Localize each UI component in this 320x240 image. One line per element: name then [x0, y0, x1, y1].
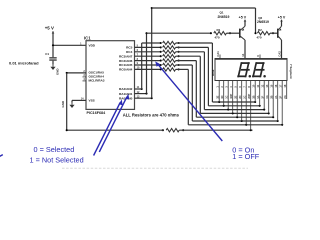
- display top pin 9: [259, 55, 261, 59]
- stub pin 4 MCLR/RA3 unused: [83, 80, 87, 82]
- capacitor C1: [49, 57, 56, 58]
- power +5V main: [52, 31, 55, 33]
- ground at VSS: [71, 103, 73, 105]
- resistor bank R seg4 470: [160, 55, 162, 57]
- svg-text:R2: R2: [258, 28, 262, 32]
- wire RA1 pin12 to R1 feed: [135, 93, 147, 95]
- display bottom pin 16: [277, 81, 279, 122]
- node seg6 digit2 end: [277, 120, 279, 122]
- display bottom pin 8: [250, 81, 252, 131]
- node seg2 digit1 tap: [223, 105, 225, 107]
- svg-text:OSC1/RA5: OSC1/RA5: [89, 71, 105, 75]
- svg-text:PIC16F684: PIC16F684: [87, 111, 107, 115]
- wire segment 4 rail: [200, 112, 268, 114]
- svg-text:RC4: RC4: [126, 50, 132, 54]
- wire segment 2 drop: [207, 47, 209, 105]
- svg-text:CA1: CA1: [216, 51, 220, 57]
- wire Q1 collector to display CA1: [244, 40, 246, 59]
- svg-text:Q2: Q2: [258, 16, 262, 20]
- svg-text:14: 14: [241, 53, 245, 57]
- node RA1 corner: [145, 93, 147, 95]
- power +5V at Q2 emitter: [281, 21, 283, 26]
- svg-text:RA2/AN2: RA2/AN2: [119, 87, 133, 91]
- wire segment 5 drop: [195, 61, 197, 118]
- display top pin CA1: [219, 55, 221, 59]
- display digit 1 showing 8.: [241, 62, 250, 64]
- display digit 2 showing 8.: [256, 62, 265, 64]
- display bottom pin 4: [232, 81, 234, 114]
- resistor bank R seg2 470: [160, 46, 162, 48]
- op IC1 PIC16F684 microcontroller: [86, 41, 135, 110]
- svg-text:470: 470: [257, 35, 262, 39]
- display bottom pin 17: [281, 81, 283, 125]
- resistor bank R seg5 470: [160, 60, 162, 62]
- node seg7 digit1 tap: [245, 124, 247, 126]
- wire segment row 7 from IC: [135, 68, 161, 70]
- svg-text:RC2/AN6: RC2/AN6: [119, 59, 133, 63]
- wire dp rail to display: [179, 129, 252, 131]
- svg-text:R1: R1: [217, 28, 221, 32]
- svg-text:RC5: RC5: [126, 46, 132, 50]
- display bottom pin 7: [245, 81, 247, 125]
- node seg1 digit1 tap: [218, 101, 220, 103]
- ground below C1: [52, 65, 54, 67]
- resistor R1 470: [210, 32, 212, 34]
- stub pin 3 OSC2/RA4 unused: [83, 76, 87, 78]
- svg-text:MCLR/RA3: MCLR/RA3: [89, 79, 105, 83]
- wire Q2 collector to display CA2: [281, 40, 283, 59]
- wire R2 to Q2 base: [270, 32, 278, 34]
- resistor R2 470: [254, 32, 256, 34]
- annotation arrow to RA0 pin: [94, 103, 121, 156]
- svg-text:2N6519: 2N6519: [218, 15, 230, 19]
- display bottom pin 5: [236, 81, 238, 118]
- wire segment 6 rail: [192, 120, 277, 122]
- wire segment 7 drop: [187, 69, 189, 124]
- svg-text:IC1: IC1: [84, 36, 91, 41]
- node seg6 digit1 tap: [241, 120, 243, 122]
- svg-text:1 = OFF: 1 = OFF: [232, 152, 260, 161]
- svg-text:470: 470: [215, 35, 220, 39]
- svg-text:VDD: VDD: [89, 44, 96, 48]
- node dp rail corner: [66, 129, 68, 131]
- svg-text:0 = Selected: 0 = Selected: [34, 145, 75, 154]
- svg-text:RC1/AN5: RC1/AN5: [119, 63, 133, 67]
- annotation fragment left edge: [0, 155, 3, 157]
- resistor R(dp) 470: [162, 129, 164, 131]
- node RA2 corner: [141, 88, 143, 90]
- resistor bank R seg7 470: [160, 68, 162, 70]
- svg-text:DIS1: DIS1: [211, 69, 215, 76]
- wire segment 3 drop: [203, 52, 205, 110]
- display bottom pin 1: [218, 81, 220, 103]
- node seg5 digit1 tap: [236, 116, 238, 118]
- wire segment 3 rail: [204, 109, 264, 111]
- wire segment 5 rail: [196, 116, 273, 118]
- svg-text:2N6519: 2N6519: [257, 20, 269, 24]
- power +5V at Q1 emitter: [244, 21, 246, 26]
- wire segment row 3 from IC: [135, 51, 161, 53]
- display bottom pin 2: [223, 81, 225, 106]
- wire RA2 pin11 up to segment row 1: [135, 88, 142, 90]
- node seg1 digit2 end: [254, 101, 256, 103]
- node seg2 digit2 end: [259, 105, 261, 107]
- svg-text:7 Segment: 7 Segment: [289, 64, 293, 79]
- wire segment row 6 from IC: [135, 64, 161, 66]
- wire segment 2 rail: [208, 105, 259, 107]
- node seg7 digit2 end: [281, 124, 283, 126]
- node dp corner: [66, 72, 68, 74]
- svg-text:OSC2/RA4: OSC2/RA4: [89, 75, 105, 79]
- svg-text:+5 V: +5 V: [239, 15, 247, 19]
- wire segment row 5 from IC: [135, 60, 161, 62]
- wire segment 4 drop: [199, 56, 201, 113]
- display bottom pin 12: [263, 81, 265, 110]
- resistor bank R seg1 470: [160, 42, 162, 44]
- wire down to R2: [255, 8, 257, 33]
- wire C1 to ground: [52, 61, 54, 65]
- svg-text:+5 V: +5 V: [278, 15, 286, 19]
- wire R1 feed horizontal: [147, 32, 211, 34]
- resistor bank R seg3 470: [160, 51, 162, 53]
- svg-text:VSS: VSS: [89, 99, 95, 103]
- wire dp vertical down: [66, 73, 68, 130]
- node RA0 corner: [151, 97, 153, 99]
- node seg4 digit2 end: [268, 112, 270, 114]
- display DIS1 dual 7-segment: [215, 59, 287, 81]
- node dp at digit pin: [250, 129, 252, 131]
- svg-text:Q1: Q1: [220, 11, 224, 15]
- svg-text:RA1/AN1: RA1/AN1: [119, 92, 133, 96]
- wire segment row 2 from IC: [135, 46, 161, 48]
- wire segment 1 rail: [212, 101, 255, 103]
- svg-text:RC0/AN4: RC0/AN4: [119, 68, 133, 72]
- display bottom pin 11: [259, 81, 261, 106]
- node R1 feed corner: [145, 32, 147, 34]
- display bottom pin 18: [286, 81, 288, 100]
- svg-text:C1: C1: [45, 52, 49, 56]
- wire segment 6 drop: [191, 65, 193, 121]
- wire dp bottom rail: [67, 129, 161, 131]
- display bottom pin 10: [254, 81, 256, 103]
- transistor Q1 2N6519 PNP: [239, 29, 241, 38]
- wire RA5 pin2 (dp segment) left and down: [67, 72, 86, 74]
- display bottom pin 13: [268, 81, 270, 114]
- node top rail corner: [151, 7, 153, 9]
- wire segment 7 rail: [188, 124, 282, 126]
- node seg4 digit1 tap: [232, 112, 234, 114]
- display bottom pin 3: [227, 81, 229, 110]
- wire +5V vertical: [52, 31, 54, 57]
- annotation arrow to RA1 pin: [99, 97, 127, 152]
- transistor Q2 2N6519 PNP: [277, 29, 279, 38]
- svg-text:ALL Resistors are 470 ohms: ALL Resistors are 470 ohms: [123, 113, 180, 118]
- svg-text:+5 V: +5 V: [45, 26, 54, 31]
- wire +5V to VDD pin 1: [53, 44, 86, 46]
- node seg3 digit2 end: [263, 109, 265, 111]
- wire R1 to Q1 base: [226, 32, 239, 34]
- wire VSS pin14 to ground: [72, 99, 86, 101]
- svg-text:RC3/AN7: RC3/AN7: [119, 54, 133, 58]
- svg-text:0.01 microfarad: 0.01 microfarad: [9, 61, 39, 66]
- caption fragment bottom edge: [62, 167, 248, 169]
- resistor bank R seg6 470: [160, 64, 162, 66]
- wire segment row 1 from IC: [142, 42, 161, 44]
- wire segment row 4 from IC: [135, 55, 161, 57]
- svg-text:GND: GND: [56, 69, 60, 75]
- node seg5 digit2 end: [272, 116, 274, 118]
- svg-text:CA2: CA2: [278, 51, 282, 57]
- display bottom pin 6: [241, 81, 243, 122]
- annotation arrow to segment resistors: [158, 65, 222, 141]
- wire segment 1 drop: [211, 43, 213, 102]
- svg-text:1 = Not Selected: 1 = Not Selected: [30, 156, 84, 165]
- svg-text:GND: GND: [61, 101, 65, 107]
- wire top rail to R2: [152, 7, 256, 9]
- display bottom pin 15: [272, 81, 274, 118]
- node +5V/VDD junction: [52, 44, 54, 46]
- node seg3 digit1 tap: [227, 109, 229, 111]
- wire RA0 pin13 to R2 feed: [135, 97, 152, 99]
